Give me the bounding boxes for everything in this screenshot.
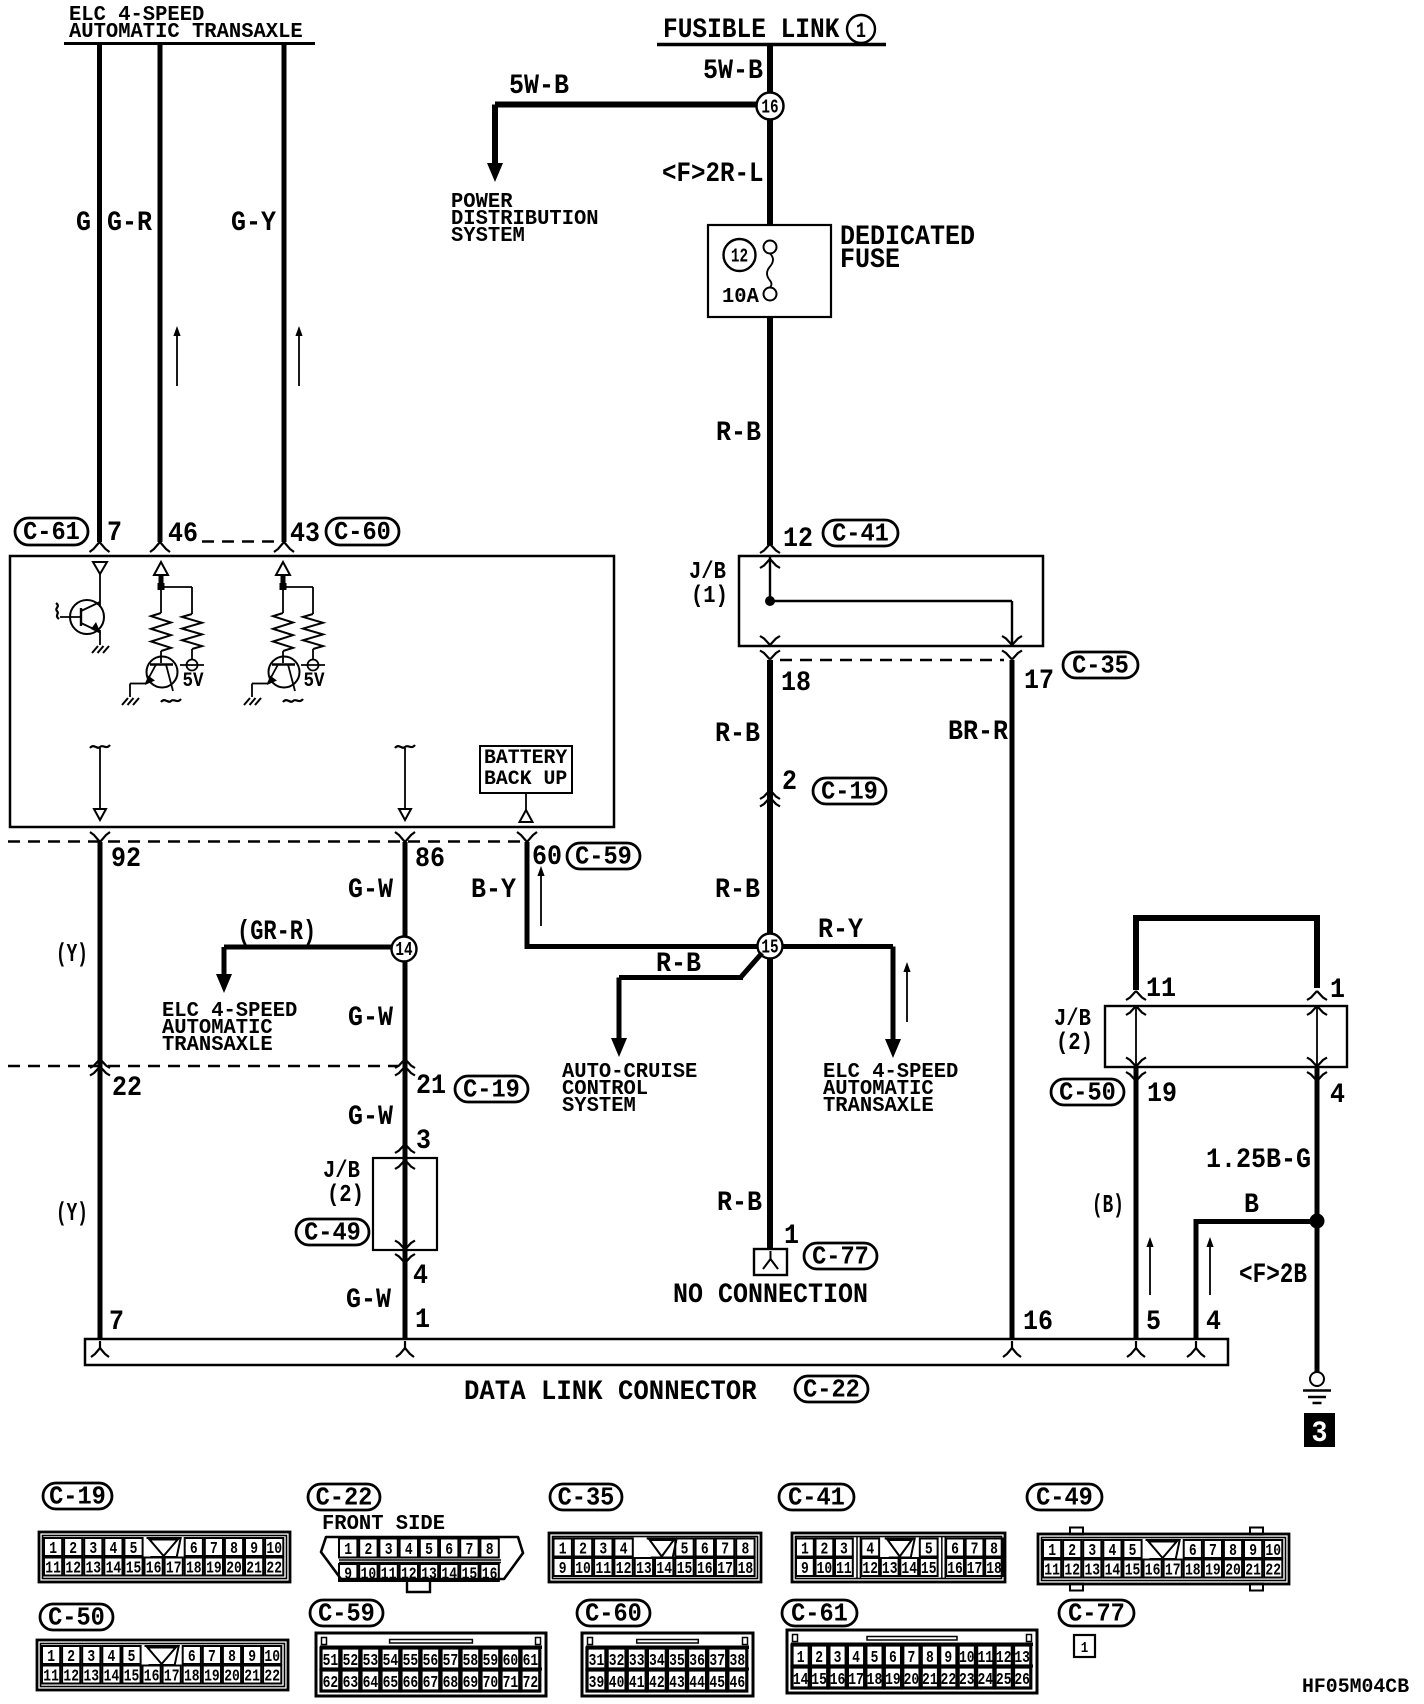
- svg-text:4: 4: [866, 1541, 874, 1560]
- svg-text:16: 16: [697, 1560, 713, 1579]
- svg-text:20: 20: [226, 1560, 242, 1579]
- svg-text:(Y): (Y): [56, 1198, 88, 1228]
- svg-text:72: 72: [523, 1674, 539, 1693]
- svg-text:13: 13: [1014, 1649, 1030, 1668]
- svg-text:5: 5: [130, 1540, 138, 1559]
- svg-text:(1): (1): [691, 583, 728, 610]
- J/B(2) left internal wire: [404, 1158, 406, 1250]
- wire 1.25B-G: [1315, 1067, 1320, 1372]
- svg-text:18: 18: [1185, 1562, 1201, 1581]
- svg-text:1: 1: [801, 1541, 809, 1560]
- pin 1 C-77: [784, 1221, 799, 1252]
- node 15: [758, 934, 783, 959]
- fork pin60: [517, 832, 537, 842]
- svg-text:C-22: C-22: [316, 1483, 373, 1513]
- connector pinout C-61: [787, 1630, 1037, 1693]
- svg-text:11: 11: [381, 1566, 397, 1585]
- svg-text:R-B: R-B: [715, 719, 760, 750]
- connector label C-41: [823, 519, 898, 549]
- bar fork pin5: [1127, 1341, 1145, 1357]
- terminal pin3: [395, 1144, 415, 1169]
- arrow on wire 5: [1146, 1237, 1153, 1295]
- svg-text:70: 70: [483, 1674, 499, 1693]
- svg-text:1: 1: [415, 1305, 430, 1336]
- svg-text:17: 17: [967, 1560, 983, 1579]
- svg-text:5: 5: [1146, 1307, 1161, 1338]
- svg-text:9: 9: [801, 1560, 809, 1579]
- svg-text:23: 23: [959, 1671, 975, 1690]
- fuse number 12 circled: [724, 239, 756, 271]
- svg-text:20: 20: [224, 1668, 240, 1687]
- svg-text:12: 12: [1064, 1562, 1080, 1581]
- wire G-Y (C-60 pin43): [274, 45, 294, 552]
- connector label C-50 mid: [1051, 1078, 1124, 1108]
- svg-text:C-61: C-61: [791, 1599, 848, 1629]
- J/B(2) right internal wires: [1136, 1006, 1317, 1067]
- svg-text:22: 22: [112, 1073, 142, 1104]
- svg-text:6: 6: [190, 1540, 198, 1559]
- connector label C-19 mid: [813, 777, 886, 807]
- arrow on wire 4: [1206, 1237, 1213, 1295]
- svg-text:SYSTEM: SYSTEM: [451, 225, 525, 248]
- svg-text:C-77: C-77: [1068, 1599, 1125, 1629]
- svg-text:10: 10: [264, 1648, 280, 1667]
- wire G-W column: [403, 842, 408, 1339]
- svg-text:10: 10: [959, 1649, 975, 1668]
- connector label C-41: [779, 1483, 854, 1513]
- svg-text:(B): (B): [1092, 1190, 1124, 1220]
- svg-text:14: 14: [1105, 1562, 1121, 1581]
- svg-text:5: 5: [1129, 1542, 1137, 1561]
- svg-text:5V: 5V: [304, 670, 325, 693]
- bar fork pin1: [396, 1341, 414, 1357]
- BATTERY BACK UP box: [480, 746, 572, 793]
- svg-text:(2): (2): [327, 1182, 364, 1209]
- arrow on wire G-R: [173, 326, 180, 386]
- svg-text:17: 17: [164, 1668, 180, 1687]
- svg-text:AUTOMATIC TRANSAXLE: AUTOMATIC TRANSAXLE: [69, 21, 303, 44]
- svg-text:3: 3: [840, 1541, 848, 1560]
- svg-text:7: 7: [107, 518, 122, 549]
- svg-text:R-B: R-B: [716, 418, 761, 449]
- pin 21: [416, 1071, 446, 1102]
- svg-text:15: 15: [126, 1560, 142, 1579]
- connector pinout C-41: [792, 1533, 1005, 1582]
- label J/B (2) left: [323, 1158, 364, 1209]
- connector pinout C-49: [1038, 1528, 1289, 1591]
- svg-text:R-B: R-B: [717, 1188, 762, 1219]
- svg-text:C-41: C-41: [832, 519, 889, 549]
- svg-text:6: 6: [951, 1541, 959, 1560]
- svg-text:55: 55: [403, 1652, 419, 1671]
- terminal pin18: [760, 636, 780, 660]
- label J/B (2) right: [1054, 1006, 1093, 1057]
- svg-text:6: 6: [701, 1541, 709, 1560]
- svg-text:10: 10: [361, 1566, 377, 1585]
- connector label C-77: [1059, 1599, 1134, 1629]
- connector label C-59 mid: [567, 842, 640, 872]
- svg-text:1: 1: [559, 1541, 567, 1560]
- svg-text:C-49: C-49: [1036, 1483, 1093, 1513]
- fork pin92: [90, 832, 110, 1339]
- pin 2: [782, 767, 797, 798]
- svg-text:31: 31: [589, 1652, 605, 1671]
- svg-text:7: 7: [908, 1649, 916, 1668]
- svg-text:4: 4: [405, 1541, 413, 1560]
- svg-text:11: 11: [596, 1560, 612, 1579]
- label BR-R: [948, 717, 1008, 748]
- svg-text:C-50: C-50: [48, 1603, 105, 1633]
- svg-text:52: 52: [343, 1652, 359, 1671]
- svg-text:2: 2: [67, 1648, 75, 1667]
- svg-text:3: 3: [834, 1649, 842, 1668]
- svg-text:63: 63: [343, 1674, 359, 1693]
- svg-text:13: 13: [1085, 1562, 1101, 1581]
- svg-text:DATA LINK CONNECTOR: DATA LINK CONNECTOR: [464, 1377, 757, 1408]
- pin 92: [111, 844, 141, 875]
- svg-text:21: 21: [244, 1668, 260, 1687]
- svg-text:43: 43: [290, 519, 320, 550]
- svg-text:8: 8: [926, 1649, 934, 1668]
- svg-text:37: 37: [709, 1652, 725, 1671]
- svg-text:9: 9: [250, 1540, 258, 1559]
- svg-text:8: 8: [1229, 1542, 1237, 1561]
- svg-text:1: 1: [344, 1541, 352, 1560]
- svg-text:2: 2: [815, 1649, 823, 1668]
- wire B to pin4: [1194, 1222, 1311, 1340]
- connector label C-77 mid: [804, 1242, 877, 1272]
- svg-text:16: 16: [1145, 1562, 1161, 1581]
- svg-text:3: 3: [1088, 1542, 1096, 1561]
- figure code HF05M04CB: [1302, 1676, 1409, 1699]
- svg-text:12: 12: [401, 1566, 417, 1585]
- svg-text:4: 4: [1330, 1080, 1345, 1111]
- label ELC 4-SPEED AUTOMATIC TRANSAXLE right: [823, 1061, 958, 1118]
- bar fork pin7: [91, 1341, 109, 1357]
- svg-text:59: 59: [483, 1652, 499, 1671]
- svg-text:9: 9: [1249, 1542, 1257, 1561]
- terminal pin22: [90, 1059, 110, 1076]
- svg-text:11: 11: [1044, 1562, 1060, 1581]
- svg-text:4: 4: [1109, 1542, 1117, 1561]
- label R-Y: [818, 915, 863, 946]
- pin 7: [107, 518, 122, 549]
- label FRONT SIDE: [322, 1513, 445, 1536]
- pin 86: [415, 844, 445, 875]
- svg-text:11: 11: [43, 1668, 59, 1687]
- junction block J/B(2) left box: [373, 1158, 437, 1250]
- svg-text:3: 3: [87, 1648, 95, 1667]
- connector label C-50: [40, 1603, 113, 1633]
- svg-text:2: 2: [69, 1540, 77, 1559]
- fork pin86: [395, 832, 415, 842]
- svg-text:C-61: C-61: [23, 517, 80, 547]
- label (Y) upper: [56, 939, 88, 969]
- svg-text:7: 7: [1209, 1542, 1217, 1561]
- svg-text:BR-R: BR-R: [948, 717, 1008, 748]
- label 5W-B left: [509, 71, 569, 102]
- svg-text:6: 6: [188, 1648, 196, 1667]
- svg-text:7: 7: [208, 1648, 216, 1667]
- svg-text:57: 57: [443, 1652, 459, 1671]
- svg-text:FUSIBLE LINK: FUSIBLE LINK: [663, 15, 840, 46]
- svg-text:12: 12: [996, 1649, 1012, 1668]
- terminal pin1 jb2r: [1307, 991, 1327, 1015]
- svg-text:2: 2: [782, 767, 797, 798]
- svg-text:14: 14: [656, 1560, 672, 1579]
- svg-text:17: 17: [1024, 666, 1054, 697]
- terminal pin4 jb2r: [1307, 1058, 1327, 1082]
- label (B): [1092, 1190, 1124, 1220]
- label NO CONNECTION: [673, 1280, 868, 1311]
- label (Y) lower: [56, 1198, 88, 1228]
- arrow to auto-cruise: [611, 1038, 627, 1057]
- pin 43: [290, 519, 320, 550]
- svg-text:5: 5: [871, 1649, 879, 1668]
- connector label C-35: [550, 1483, 622, 1513]
- label R-B above node15: [715, 875, 760, 906]
- svg-text:61: 61: [523, 1652, 539, 1671]
- svg-text:TRANSAXLE: TRANSAXLE: [162, 1034, 273, 1057]
- svg-text:11: 11: [1146, 974, 1176, 1005]
- svg-text:13: 13: [636, 1560, 652, 1579]
- svg-text:19: 19: [1205, 1562, 1221, 1581]
- arrow to ELC transaxle right: [885, 1039, 901, 1058]
- svg-text:18: 18: [184, 1668, 200, 1687]
- wire 5W-B horizontal: [495, 105, 757, 166]
- svg-text:C-35: C-35: [558, 1483, 615, 1513]
- pin 12: [783, 524, 813, 555]
- svg-text:19: 19: [885, 1671, 901, 1690]
- svg-text:46: 46: [168, 519, 198, 550]
- pin 11: [1146, 974, 1176, 1005]
- svg-text:(2): (2): [1056, 1030, 1093, 1057]
- svg-text:15: 15: [1125, 1562, 1141, 1581]
- svg-text:C-19: C-19: [821, 777, 878, 807]
- svg-text:7: 7: [210, 1540, 218, 1559]
- connector pinout C-77: [1074, 1635, 1095, 1657]
- svg-text:2: 2: [1068, 1542, 1076, 1561]
- svg-text:4: 4: [852, 1649, 860, 1668]
- svg-text:25: 25: [996, 1671, 1012, 1690]
- svg-text:7: 7: [109, 1307, 124, 1338]
- pin 17: [1024, 666, 1054, 697]
- svg-text:G-W: G-W: [348, 1003, 393, 1034]
- wire jumper loop top: [1133, 918, 1320, 990]
- svg-text:5: 5: [425, 1541, 433, 1560]
- svg-text:17: 17: [166, 1560, 182, 1579]
- wire G (C-61 pin7): [90, 45, 110, 552]
- svg-text:5W-B: 5W-B: [509, 71, 569, 102]
- svg-text:2: 2: [821, 1541, 829, 1560]
- svg-text:21: 21: [246, 1560, 262, 1579]
- svg-text:3: 3: [89, 1540, 97, 1559]
- wire dashed C-19 boundary left: [8, 1065, 398, 1068]
- svg-text:68: 68: [443, 1674, 459, 1693]
- label (F)2B: [1239, 1260, 1307, 1291]
- svg-text:6: 6: [889, 1649, 897, 1668]
- pin 5: [1146, 1307, 1161, 1338]
- pin 4 left: [413, 1261, 428, 1292]
- label FUSIBLE LINK 1: [657, 15, 886, 46]
- label 1.25B-G: [1206, 1145, 1311, 1176]
- svg-text:60: 60: [532, 842, 562, 873]
- wire (F)2R-L: [767, 119, 773, 226]
- svg-text:1: 1: [1081, 1640, 1089, 1657]
- svg-text:62: 62: [323, 1674, 339, 1693]
- pin 1 jb2r: [1330, 975, 1345, 1006]
- label B: [1244, 1190, 1259, 1221]
- label R-B mid: [715, 719, 760, 750]
- wire (GR-R) branch: [224, 947, 392, 978]
- svg-text:44: 44: [689, 1674, 705, 1693]
- svg-text:5W-B: 5W-B: [703, 56, 763, 87]
- svg-text:C-77: C-77: [812, 1242, 869, 1272]
- svg-text:17: 17: [717, 1560, 733, 1579]
- svg-text:8: 8: [990, 1541, 998, 1560]
- svg-text:14: 14: [106, 1560, 122, 1579]
- connector label C-60: [326, 517, 399, 547]
- pin 18: [781, 668, 811, 699]
- svg-text:3: 3: [599, 1541, 607, 1560]
- svg-text:12: 12: [65, 1560, 81, 1579]
- svg-text:64: 64: [363, 1674, 379, 1693]
- svg-text:7: 7: [721, 1541, 729, 1560]
- svg-text:14: 14: [104, 1668, 120, 1687]
- wire R-B lower: [767, 958, 773, 1249]
- svg-text:9: 9: [344, 1566, 352, 1585]
- svg-text:12: 12: [63, 1668, 79, 1687]
- label B-Y: [471, 875, 516, 906]
- label DATA LINK CONNECTOR: [464, 1377, 757, 1408]
- svg-text:43: 43: [669, 1674, 685, 1693]
- svg-text:C-19: C-19: [49, 1482, 106, 1512]
- wire dashed C-35 boundary: [780, 659, 1004, 662]
- transistor Q1: [56, 574, 109, 653]
- svg-text:7: 7: [971, 1541, 979, 1560]
- label ELC 4-SPEED AUTOMATIC TRANSAXLE (source): [64, 4, 315, 44]
- svg-text:20: 20: [904, 1671, 920, 1690]
- connector label C-61: [782, 1599, 857, 1629]
- label (GR-R): [237, 917, 316, 948]
- terminal pin4 jb2l: [395, 1241, 415, 1264]
- svg-text:13: 13: [882, 1560, 898, 1579]
- connector pinout C-35: [549, 1533, 761, 1582]
- pin 60: [532, 842, 562, 873]
- svg-text:15: 15: [761, 937, 778, 959]
- svg-text:15: 15: [677, 1560, 693, 1579]
- connector pinout C-59: [316, 1633, 546, 1696]
- svg-text:22: 22: [266, 1560, 282, 1579]
- svg-text:39: 39: [589, 1674, 605, 1693]
- pin 3: [416, 1126, 431, 1157]
- C-77 no-connection box: [754, 1249, 787, 1275]
- svg-text:34: 34: [649, 1652, 665, 1671]
- label G-W 3: [348, 1102, 393, 1133]
- svg-text:6: 6: [445, 1541, 453, 1560]
- wire R-Y: [782, 947, 893, 1047]
- output arrow pin 92: [90, 745, 110, 820]
- svg-text:BATTERY: BATTERY: [484, 747, 567, 770]
- output arrow pin 86: [395, 745, 415, 820]
- node 16: [757, 93, 784, 120]
- svg-text:10: 10: [817, 1560, 833, 1579]
- svg-text:24: 24: [977, 1671, 993, 1690]
- svg-text:58: 58: [463, 1652, 479, 1671]
- svg-text:1: 1: [1330, 975, 1345, 1006]
- svg-text:86: 86: [415, 844, 445, 875]
- svg-text:G-W: G-W: [348, 1102, 393, 1133]
- connector label C-49: [1027, 1483, 1102, 1513]
- svg-text:R-B: R-B: [715, 875, 760, 906]
- svg-text:18: 18: [186, 1560, 202, 1579]
- svg-text:16: 16: [830, 1671, 846, 1690]
- connector pinout C-50: [37, 1640, 288, 1690]
- svg-text:4: 4: [110, 1540, 118, 1559]
- wire BR-R: [1010, 660, 1015, 1339]
- svg-text:14: 14: [901, 1560, 917, 1579]
- wire G-R (C-60 pin46): [150, 45, 170, 552]
- svg-text:TRANSAXLE: TRANSAXLE: [823, 1095, 934, 1118]
- arrow on wire G-Y: [295, 326, 302, 386]
- arrow to power distribution: [487, 163, 503, 182]
- svg-text:1: 1: [47, 1648, 55, 1667]
- svg-text:60: 60: [503, 1652, 519, 1671]
- dedicated fuse box: [708, 225, 831, 317]
- svg-text:67: 67: [423, 1674, 439, 1693]
- label R-B branch: [656, 949, 701, 980]
- svg-text:15: 15: [124, 1668, 140, 1687]
- label G-Y: [231, 208, 276, 239]
- svg-text:5V: 5V: [183, 670, 204, 693]
- svg-text:8: 8: [230, 1540, 238, 1559]
- svg-text:FUSE: FUSE: [840, 245, 900, 276]
- svg-text:C-35: C-35: [1072, 651, 1129, 681]
- svg-text:C-41: C-41: [788, 1483, 845, 1513]
- connector label C-35: [1063, 651, 1138, 681]
- svg-text:45: 45: [709, 1674, 725, 1693]
- wire R-B to auto-cruise: [619, 953, 762, 1045]
- label R-B lower: [717, 1188, 762, 1219]
- wire dashed C-60 boundary: [202, 540, 280, 543]
- svg-text:14: 14: [395, 939, 412, 961]
- pin 22: [112, 1073, 142, 1104]
- svg-text:J/B: J/B: [323, 1158, 360, 1185]
- connector label C-49 mid: [296, 1218, 369, 1248]
- svg-text:8: 8: [486, 1541, 494, 1560]
- svg-text:38: 38: [730, 1652, 746, 1671]
- svg-text:C-49: C-49: [304, 1218, 361, 1248]
- svg-text:<F>2B: <F>2B: [1239, 1260, 1307, 1291]
- svg-text:G: G: [76, 208, 91, 239]
- label G-W 1: [348, 875, 393, 906]
- arrow to ELC transaxle left: [216, 974, 232, 993]
- terminal pin2 C-19: [760, 790, 780, 807]
- svg-text:22: 22: [1265, 1562, 1281, 1581]
- triangle down wire G: [93, 562, 107, 574]
- terminal pin19: [1126, 1058, 1146, 1082]
- svg-text:3: 3: [1312, 1417, 1328, 1451]
- svg-text:(Y): (Y): [56, 939, 88, 969]
- connector label C-61: [15, 517, 88, 547]
- wire 5W-B vertical: [767, 46, 773, 96]
- label G-R: [107, 208, 152, 239]
- pin 46: [168, 519, 198, 550]
- svg-text:5: 5: [681, 1541, 689, 1560]
- wire B-Y: [525, 842, 759, 947]
- svg-text:36: 36: [689, 1652, 705, 1671]
- svg-text:C-50: C-50: [1059, 1078, 1116, 1108]
